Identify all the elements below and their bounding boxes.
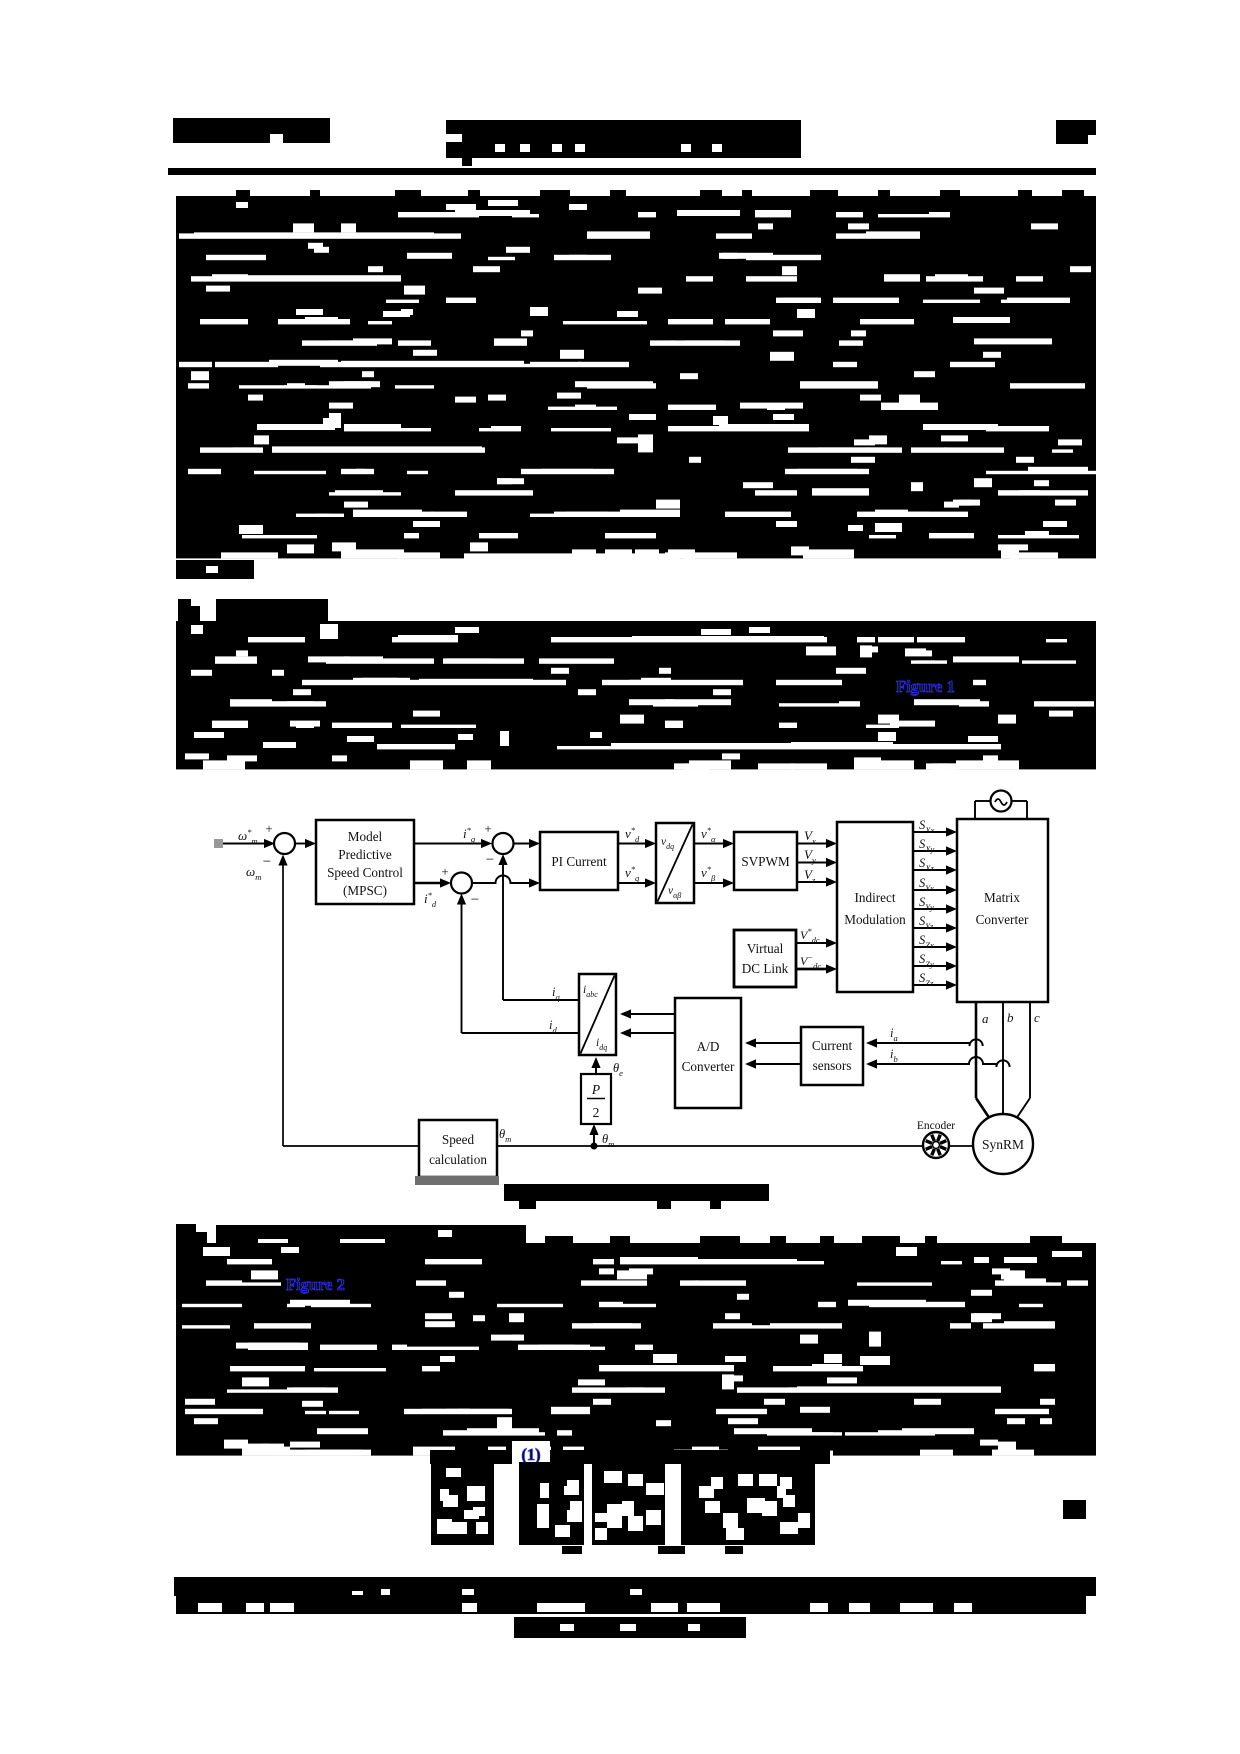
block: A/D Converter — [675, 998, 741, 1108]
wire: P/2 to abc/dq transform (theta_e) — [591, 1057, 600, 1074]
label S_Xx — [919, 818, 934, 835]
label V_x — [804, 828, 816, 846]
label i*_d — [424, 890, 437, 909]
encoder symbol — [923, 1132, 949, 1158]
svg-text:Speed: Speed — [442, 1132, 475, 1147]
label c — [1034, 1010, 1040, 1025]
wire: PI to dq/ab transform (v*_q) — [618, 878, 656, 887]
ascender fragments of first line — [545, 1236, 1062, 1245]
redacted paragraph 3 — [176, 1243, 1096, 1458]
label v*_beta — [701, 864, 716, 883]
svg-text:−: − — [486, 852, 494, 868]
input terminal (gray pad) — [214, 839, 223, 848]
label S_Yz — [919, 914, 934, 931]
redacted paragraph 2 — [176, 621, 1096, 769]
svg-text:Matrix: Matrix — [984, 890, 1020, 905]
footer second footnote line — [176, 1595, 1086, 1614]
redacted equation bridge strip — [430, 1450, 830, 1464]
plus sign at S2 — [484, 821, 491, 836]
label S_Yx — [919, 876, 934, 893]
svg-text:Converter: Converter — [976, 912, 1029, 927]
block: Model Predictive Speed Control (MPSC) — [316, 820, 414, 904]
label V*_dc — [800, 926, 820, 945]
wire: i_q feedback to S2 — [498, 854, 579, 1000]
wires: A/D converter to abc/dq transform — [620, 1009, 675, 1037]
label i_q — [552, 985, 560, 1002]
block: Virtual DC Link — [734, 930, 796, 987]
wire: S2 to PI Current — [514, 839, 541, 848]
label i_b — [890, 1047, 898, 1064]
current tap hook on phase b — [996, 1060, 1009, 1067]
svg-text:SynRM: SynRM — [982, 1137, 1024, 1152]
svg-text:sensors: sensors — [813, 1058, 852, 1073]
wire: i_d feedback to S3 — [457, 894, 579, 1034]
minus sign at S3 — [471, 892, 479, 908]
svg-text:+: + — [265, 821, 272, 836]
label S_Xy — [919, 837, 934, 854]
svg-text:b: b — [1007, 1010, 1014, 1025]
AC source symbol — [975, 791, 1027, 820]
summing junction S3 — [451, 873, 472, 894]
label S_Yy — [919, 895, 934, 912]
footer centered line — [514, 1617, 746, 1638]
redacted header title center — [446, 120, 801, 166]
svg-text:Speed Control: Speed Control — [327, 865, 403, 880]
label v*_d — [625, 825, 640, 844]
summing junction S1 — [274, 833, 295, 854]
svg-text:PI Current: PI Current — [551, 854, 607, 869]
redacted header left — [173, 118, 330, 143]
wire: transform to SVPWM (v*_a) — [694, 839, 734, 848]
shadow under Speed calculation — [415, 1176, 499, 1185]
svg-text:+: + — [441, 864, 448, 879]
wires: current sensors to A/D converter — [745, 1038, 801, 1068]
svg-text:−: − — [263, 854, 271, 870]
wire: junction to P/2 (theta_m) — [589, 1124, 598, 1150]
label a — [982, 1011, 989, 1026]
svg-text:Predictive: Predictive — [338, 847, 392, 862]
label V_z — [804, 867, 816, 885]
wires: Indirect Modulation to Matrix Converter (9 gate signals) — [913, 827, 957, 989]
label v*_alpha — [701, 825, 716, 844]
label theta_m — [602, 1132, 614, 1149]
svg-text:(1): (1) — [521, 1445, 540, 1464]
block: Matrix Converter — [957, 819, 1048, 1002]
phase line a — [976, 1002, 990, 1119]
minus sign at S1 — [263, 854, 271, 870]
phase line c — [1016, 1002, 1030, 1119]
phase line b — [1002, 1002, 1004, 1114]
link Figure 1 — [893, 675, 973, 696]
svg-text:A/D: A/D — [697, 1039, 720, 1054]
motor SynRM — [973, 1114, 1033, 1174]
label S_Zz — [919, 971, 934, 988]
label S_Zy — [919, 952, 934, 969]
svg-text:DC Link: DC Link — [742, 961, 789, 976]
plus sign at S1 — [265, 821, 272, 836]
block: P/2 gain — [581, 1074, 611, 1124]
wire: Virtual DC Link to Indirect Modulation (V-_dc) — [796, 964, 837, 973]
svg-text:Figure 2: Figure 2 — [286, 1275, 345, 1294]
svg-text:P: P — [591, 1082, 600, 1097]
svg-text:(MPSC): (MPSC) — [343, 883, 387, 898]
svg-text:Indirect: Indirect — [854, 890, 895, 905]
redacted section III heading — [176, 1224, 526, 1246]
svg-text:Model: Model — [348, 829, 383, 844]
label Encoder — [917, 1120, 955, 1132]
svg-text:a: a — [982, 1011, 989, 1026]
wire: encoder/SynRM to speed calculation — [497, 1145, 973, 1147]
label S_Zx — [919, 933, 934, 950]
svg-text:Figure 1: Figure 1 — [896, 677, 955, 696]
label omega*_m (speed reference) — [238, 827, 258, 846]
block: PI Current controller — [540, 832, 618, 890]
label b — [1007, 1010, 1014, 1025]
svg-text:2: 2 — [593, 1105, 600, 1120]
link Figure 2 — [283, 1272, 369, 1294]
minus sign at S2 — [486, 852, 494, 868]
svg-text:Converter: Converter — [682, 1059, 735, 1074]
block: Speed calculation — [419, 1120, 497, 1177]
wire: phase b tap to current sensors (i_b) with hop over phase a — [866, 1057, 996, 1069]
label v*_q — [625, 864, 640, 883]
wire: S1 to MPSC — [295, 839, 316, 848]
label S_Xz — [919, 856, 934, 873]
link equation reference (1) — [512, 1441, 550, 1464]
redacted figure caption — [504, 1184, 769, 1209]
redacted header right (page number) — [1056, 120, 1096, 144]
redacted paragraph 1 — [176, 196, 1097, 560]
block: SVPWM — [734, 832, 797, 890]
svg-text:SVPWM: SVPWM — [741, 854, 790, 869]
wire: S3 to PI Current with crossover hop — [472, 876, 540, 888]
svg-text:Modulation: Modulation — [844, 912, 906, 927]
block: abc to dq current transform — [579, 974, 616, 1055]
wires: SVPWM to Indirect Modulation (V_x V_y V_z) — [797, 839, 837, 887]
label i*_q — [463, 825, 476, 844]
wire: MPSC to S2 (i*_q) — [414, 839, 492, 848]
redacted equation matrix blocks — [431, 1462, 815, 1554]
label omega_m (measured speed) — [246, 864, 261, 882]
label theta_n (speed calc output) — [499, 1127, 511, 1144]
svg-text:c: c — [1034, 1010, 1040, 1025]
wire: phase a tap to current sensors (i_a) — [866, 1038, 970, 1047]
footer rule + first footnote line — [174, 1577, 1096, 1597]
header rule — [168, 168, 1096, 175]
wire: input to summing junction S1 — [223, 839, 275, 848]
svg-text:calculation: calculation — [429, 1152, 487, 1167]
block: Current sensors — [801, 1027, 863, 1085]
svg-text:Encoder: Encoder — [917, 1120, 955, 1132]
redacted paragraph 1 last short line — [176, 560, 254, 579]
wire: transform to SVPWM (v*_b) — [694, 878, 734, 887]
label i_a — [890, 1026, 898, 1043]
label i_d — [549, 1018, 557, 1035]
redacted equation number — [1063, 1500, 1086, 1519]
label theta_e — [613, 1061, 623, 1078]
svg-text:Current: Current — [812, 1038, 853, 1053]
ascender fragments above paragraph 1 — [236, 190, 1084, 197]
wire: speed calculation feedback to S1 — [278, 855, 419, 1147]
wire: Virtual DC Link to Indirect Modulation (V*_dc) — [796, 938, 837, 947]
redacted section II heading — [178, 599, 328, 621]
label V_y — [804, 847, 816, 865]
svg-text:Virtual: Virtual — [747, 941, 784, 956]
svg-text:−: − — [471, 892, 479, 908]
current tap hook on phase a — [970, 1039, 983, 1046]
plus sign at S3 — [441, 864, 448, 879]
block: dq to alpha-beta transform — [656, 823, 694, 903]
svg-text:+: + — [484, 821, 491, 836]
summing junction S2 — [493, 833, 514, 854]
wire: MPSC to S3 (i*_d) — [414, 878, 451, 887]
label V-_dc — [800, 952, 821, 971]
wire: PI to dq/ab transform (v*_d) — [618, 839, 656, 848]
block: Indirect Modulation — [837, 822, 913, 992]
